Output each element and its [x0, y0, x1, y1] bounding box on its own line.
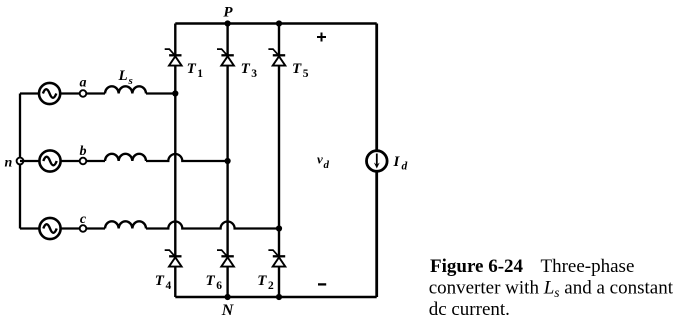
- svg-text:dc current.: dc current.: [429, 299, 510, 320]
- svg-text:1: 1: [197, 68, 203, 80]
- svg-text:T: T: [206, 273, 216, 289]
- node n: [5, 156, 24, 171]
- plus sign: [317, 33, 326, 42]
- wire right dc bus: [375, 24, 378, 298]
- thyristor T3: [217, 49, 257, 80]
- junction phase a / branch 1: [172, 90, 178, 96]
- svg-text:P: P: [223, 5, 233, 21]
- thyristor T4: [155, 250, 182, 292]
- svg-text:d: d: [402, 161, 408, 173]
- svg-text:N: N: [221, 302, 235, 319]
- svg-text:L: L: [118, 68, 128, 84]
- wire phase c with crossovers over branches 1 and 2: [20, 222, 279, 229]
- svg-text:3: 3: [251, 68, 257, 80]
- wire branch 3 (T5/T2 leg): [278, 24, 280, 298]
- terminal node b: [80, 144, 87, 164]
- junction phase c / branch 3: [276, 225, 282, 231]
- junction phase b / branch 2: [225, 158, 231, 164]
- junction top rail at T5 branch: [276, 20, 282, 26]
- svg-text:T: T: [187, 61, 197, 77]
- svg-text:5: 5: [303, 68, 309, 80]
- svg-text:4: 4: [166, 280, 172, 292]
- svg-text:Figure 6-24Three-phase: Figure 6-24Three-phase: [430, 256, 634, 277]
- minus sign: [318, 283, 326, 285]
- wire top rail P: [175, 22, 376, 24]
- svg-text:T: T: [241, 61, 251, 77]
- current source Id: [367, 151, 388, 172]
- svg-text:c: c: [80, 212, 87, 227]
- junction top rail at T3 branch: [225, 20, 231, 26]
- wire branch 2 (T3/T6 leg): [226, 24, 228, 298]
- wire left bus: [19, 94, 21, 229]
- thyristor T6: [206, 250, 234, 292]
- thyristor T2: [257, 250, 285, 292]
- svg-text:s: s: [128, 75, 133, 87]
- svg-text:T: T: [292, 61, 302, 77]
- svg-text:n: n: [5, 156, 13, 171]
- svg-text:b: b: [80, 144, 87, 159]
- junction bottom rail at T2 branch: [276, 294, 282, 300]
- wire branch 1 (T1/T4 leg): [174, 24, 176, 298]
- inductor Ls phase a: [105, 86, 146, 93]
- wire phase b with crossover over branch 1: [20, 154, 228, 161]
- inductor Ls phase b: [105, 154, 146, 161]
- svg-text:T: T: [257, 273, 267, 289]
- wire phase a: [20, 92, 175, 94]
- svg-text:a: a: [80, 76, 87, 91]
- svg-text:converter with Ls and a consta: converter with Ls and a constant: [429, 278, 674, 301]
- svg-text:T: T: [155, 273, 165, 289]
- source phase a: [39, 83, 60, 104]
- svg-text:2: 2: [268, 280, 274, 292]
- svg-text:6: 6: [216, 280, 222, 292]
- caption text: [429, 256, 674, 320]
- source phase b: [39, 150, 60, 171]
- junction bottom rail at T6 branch: [225, 294, 231, 300]
- wire bottom rail N: [175, 296, 376, 298]
- terminal node a: [80, 76, 87, 97]
- inductor Ls phase c: [105, 221, 146, 228]
- svg-text:d: d: [324, 159, 330, 171]
- source phase c: [39, 218, 60, 239]
- thyristor T5: [268, 49, 308, 80]
- svg-text:v: v: [317, 152, 323, 167]
- label Ls: [118, 68, 133, 87]
- thyristor T1: [165, 49, 204, 80]
- svg-text:I: I: [393, 154, 401, 170]
- terminal node c: [80, 212, 87, 232]
